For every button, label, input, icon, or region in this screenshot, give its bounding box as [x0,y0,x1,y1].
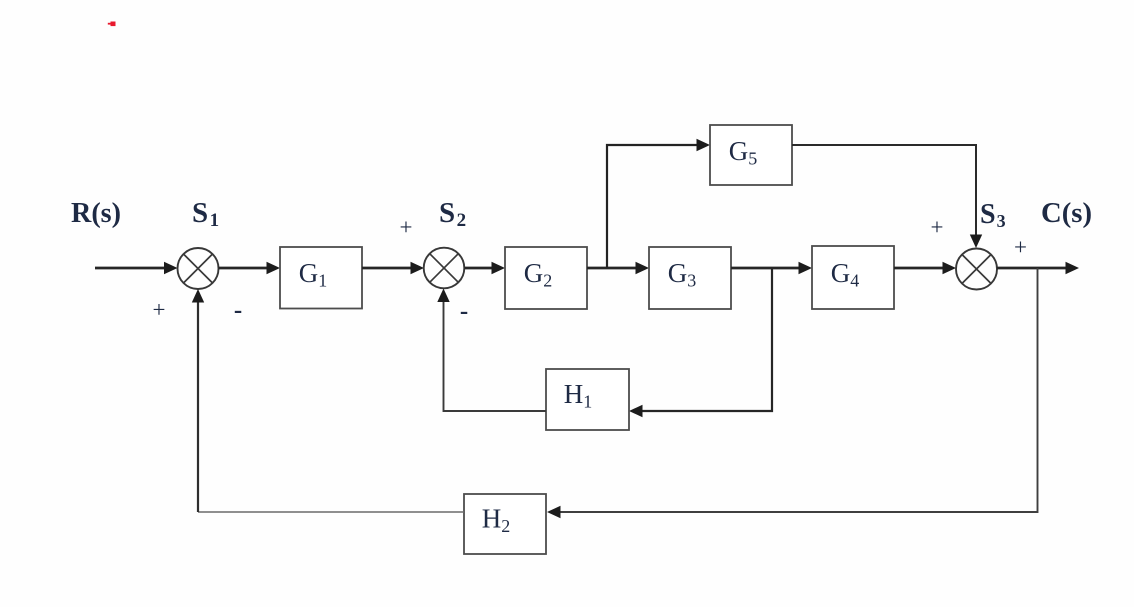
wire H2 to S1 bottom [192,289,464,512]
wire branch after S3 down to H2 [547,268,1038,518]
red annotation mark [108,22,116,27]
block H2 [464,494,546,554]
wire G4 to S3 [894,262,956,274]
wire G1 to S2 [362,262,424,274]
wire H1 to S2 bottom [437,289,546,412]
wire S2 to G2 [465,262,506,274]
wire G2 to G3 with branch node [587,262,649,274]
svg-text:+: + [1014,235,1027,260]
summing junction S1 [178,248,219,289]
svg-text:-: - [460,298,468,325]
wire G3 to G4 with branch node [731,262,812,274]
block G2 [505,247,587,309]
summing junction S2 [424,248,465,289]
svg-text:C(s): C(s) [1041,197,1092,229]
wire branch after G3 down to H1 [629,268,772,417]
block G5 [710,125,792,185]
block G1 [280,247,362,309]
block G3 [649,247,731,309]
svg-text:+: + [931,215,944,240]
svg-text:+: + [400,215,413,240]
svg-text:+: + [153,297,166,322]
svg-text:-: - [234,297,242,324]
wire input R(s) to S1 [95,262,178,274]
wire S1 to G1 [219,262,281,274]
block G4 [812,246,894,309]
svg-text:R(s): R(s) [71,197,121,229]
wire S3 to C(s) output with branch node [997,262,1079,274]
wire branch up to G5 [607,139,710,268]
summing junction S3 [956,249,997,290]
block H1 [546,369,629,430]
wire G5 to S3 top [792,145,982,248]
